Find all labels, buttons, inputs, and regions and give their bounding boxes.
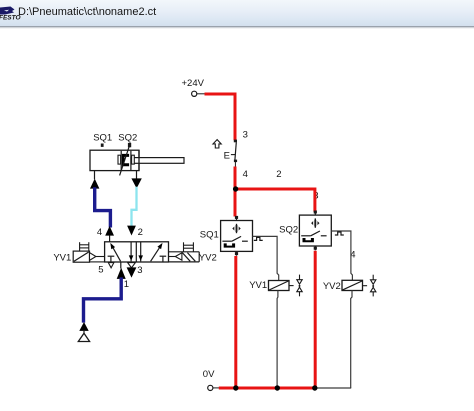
junction on rail (SQ1) [233,385,238,390]
0V terminal [208,385,213,390]
flow arrow up at port 1 [117,268,126,279]
wire: red from +24V to pushbutton E pin3 [205,94,236,140]
flow arrow down at valve port 2 [127,226,136,236]
valve cross-reference symbol at YV1 [289,275,302,297]
proximity switch SQ2 [299,211,331,251]
wire: SQ2 output to YV2 [331,231,352,280]
right position: flow 4->5 line [140,242,142,262]
cylinder right port stub [136,171,138,179]
port 3 exhaust [128,263,136,268]
svg-text:YV2: YV2 [199,252,217,263]
left position: port 5 blocked [110,257,112,262]
SQ1 position mark [101,144,104,147]
right position: port 3 blocked [162,257,164,262]
wire: SQ1 output to YV1 [253,236,279,280]
proximity switch SQ1 [221,216,253,256]
flow arrow up at valve port 4 [105,226,114,236]
svg-text:D:\Pneumatic\ct\noname2.ct: D:\Pneumatic\ct\noname2.ct [18,6,156,18]
svg-text:5: 5 [98,264,103,275]
svg-text:YV1: YV1 [53,252,71,263]
junction on rail (SQ2) [312,385,317,390]
right position: flow 1->2 arrow [151,244,162,261]
+24V terminal [192,91,197,96]
right solenoid YV2 (pilot) [169,242,200,262]
junction on rail (YV1) [275,385,280,390]
svg-text:YV1: YV1 [249,280,267,291]
svg-text:3: 3 [243,130,248,141]
hose: cyan cylinder to valve port 2 [132,187,137,226]
node A junction [233,186,238,191]
svg-text:2: 2 [138,227,143,238]
svg-text:4: 4 [97,227,102,238]
wire: 0V lead [213,387,220,389]
cam symbol at SQ2 [335,232,344,235]
wire: YV2 to 0V rail [351,291,352,389]
wire: +24V lead [197,93,205,95]
svg-text:4: 4 [243,169,248,180]
flow arrow down at cylinder right port [131,178,141,188]
pushbutton E (NO contact) [213,140,237,167]
SQ2 position mark [128,143,131,147]
wire: red SQ1 bottom to 0V rail [234,256,237,388]
svg-text:SQ2: SQ2 [279,224,298,235]
port 5 exhaust [108,263,114,268]
wire: red E pin4 down to SQ1 [234,167,237,217]
hose: dark blue valve port4 to cylinder [95,187,111,227]
wire: red branch to SQ2 [235,189,315,212]
cam symbol at SQ1 [254,237,263,240]
svg-text:E: E [224,150,230,161]
svg-text:YV2: YV2 [323,281,341,292]
wire: red SQ2 bottom to 0V rail [314,251,317,388]
flow arrow up at source [79,322,88,331]
port 1 stub [120,262,122,269]
svg-text:+24V: +24V [182,78,205,89]
hose: dark blue supply to port 1 [84,277,122,322]
FESTO logo icon [0,7,21,22]
svg-text:0V: 0V [203,369,215,380]
left position: flow 2->3 line [130,242,132,262]
compressed air source [78,333,89,341]
port 4 stub [109,235,111,242]
wire: black 0V rail segment to YV2 [315,387,351,389]
valve cross-reference symbol at YV2 [363,275,376,297]
svg-text:2: 2 [276,169,281,180]
SQ2 actuation slash [120,145,130,176]
cylinder left port stub [94,171,96,180]
wire: YV1 to 0V rail [276,291,279,389]
svg-text:SQ1: SQ1 [200,230,219,241]
5/2 way valve body [105,242,169,262]
flow arrow down at port 3 [127,267,137,277]
svg-text:SQ2: SQ2 [118,133,137,144]
svg-text:1: 1 [124,279,129,290]
svg-text:3: 3 [137,265,142,276]
solenoid coil YV2 [342,280,363,290]
wire: red 0V rail [219,387,315,390]
source stem [83,331,85,334]
flow arrow up at cylinder left port [90,179,99,189]
cylinder A (double acting) [90,150,184,170]
left solenoid YV1 (pilot) [73,242,104,262]
solenoid coil YV1 [269,281,290,291]
left position: flow 1->4 arrow [111,245,120,262]
svg-text:SQ1: SQ1 [93,133,112,144]
